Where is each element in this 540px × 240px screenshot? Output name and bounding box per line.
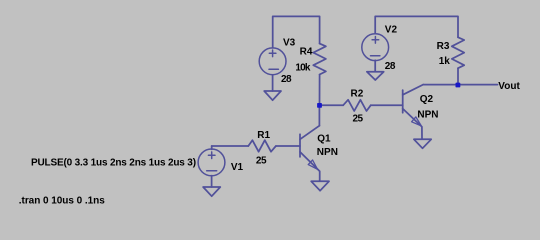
wire R4 bottom to node A	[319, 75, 321, 106]
wire V2 top to R3 top	[375, 16, 458, 37]
svg-text:R3: R3	[437, 41, 450, 52]
svg-text:1k: 1k	[439, 56, 451, 67]
wire V1 top to R1 left	[212, 145, 249, 147]
svg-text:R1: R1	[257, 130, 270, 141]
svg-text:V2: V2	[385, 25, 398, 36]
resistor R1	[248, 140, 276, 152]
ground below V1	[203, 187, 220, 196]
svg-text:NPN: NPN	[317, 147, 338, 158]
svg-text:Q2: Q2	[420, 94, 434, 105]
svg-text:NPN: NPN	[417, 110, 438, 121]
ground below Q2	[414, 139, 431, 148]
svg-text:25: 25	[256, 155, 267, 166]
svg-text:10k: 10k	[295, 63, 311, 74]
wire V1 bottom lead	[211, 176, 213, 187]
node B junction dot	[456, 83, 461, 88]
wire node B to Vout	[458, 84, 498, 86]
svg-text:28: 28	[385, 61, 396, 72]
wire V3 bottom lead	[272, 75, 274, 91]
svg-text:V3: V3	[283, 38, 296, 49]
svg-text:R2: R2	[351, 89, 364, 100]
wire Q2 collector to node B	[423, 84, 458, 86]
node A junction dot	[317, 103, 322, 108]
resistor R3	[452, 37, 464, 68]
resistor R4	[313, 44, 326, 75]
wire R2 right to Q2 base	[371, 104, 403, 106]
wire node A to R2 left	[320, 104, 344, 106]
transistor Q1	[300, 126, 320, 181]
voltage source V2	[362, 34, 389, 61]
svg-text:28: 28	[281, 74, 292, 85]
transistor Q2	[403, 85, 423, 139]
wire V3 top to R4 top	[273, 16, 320, 48]
resistor R2	[343, 100, 371, 111]
svg-text:Vout: Vout	[498, 81, 520, 92]
wire R3 bottom to node B	[457, 68, 459, 85]
wire V2 bottom lead	[374, 60, 376, 71]
svg-text:V1: V1	[231, 162, 244, 173]
ground below V2	[367, 72, 384, 80]
svg-text:Q1: Q1	[317, 133, 331, 144]
voltage source V1	[198, 149, 225, 176]
svg-text:.tran 0 10us 0 .1ns: .tran 0 10us 0 .1ns	[19, 196, 105, 207]
voltage source V3	[259, 48, 286, 75]
wire R1 right to Q1 base	[276, 145, 300, 147]
arrow Q2 emitter	[412, 117, 422, 126]
wire V1 top stub	[211, 146, 213, 149]
svg-text:25: 25	[353, 114, 364, 125]
ground below Q1	[311, 181, 329, 190]
ground below V3	[264, 91, 281, 100]
wire node A to Q1 collector	[318, 105, 320, 125]
arrow Q1 emitter	[308, 160, 317, 169]
svg-text:PULSE(0 3.3 1us 2ns 2ns 1us 2u: PULSE(0 3.3 1us 2ns 2ns 1us 2us 3)	[31, 158, 196, 169]
svg-text:R4: R4	[300, 47, 313, 58]
